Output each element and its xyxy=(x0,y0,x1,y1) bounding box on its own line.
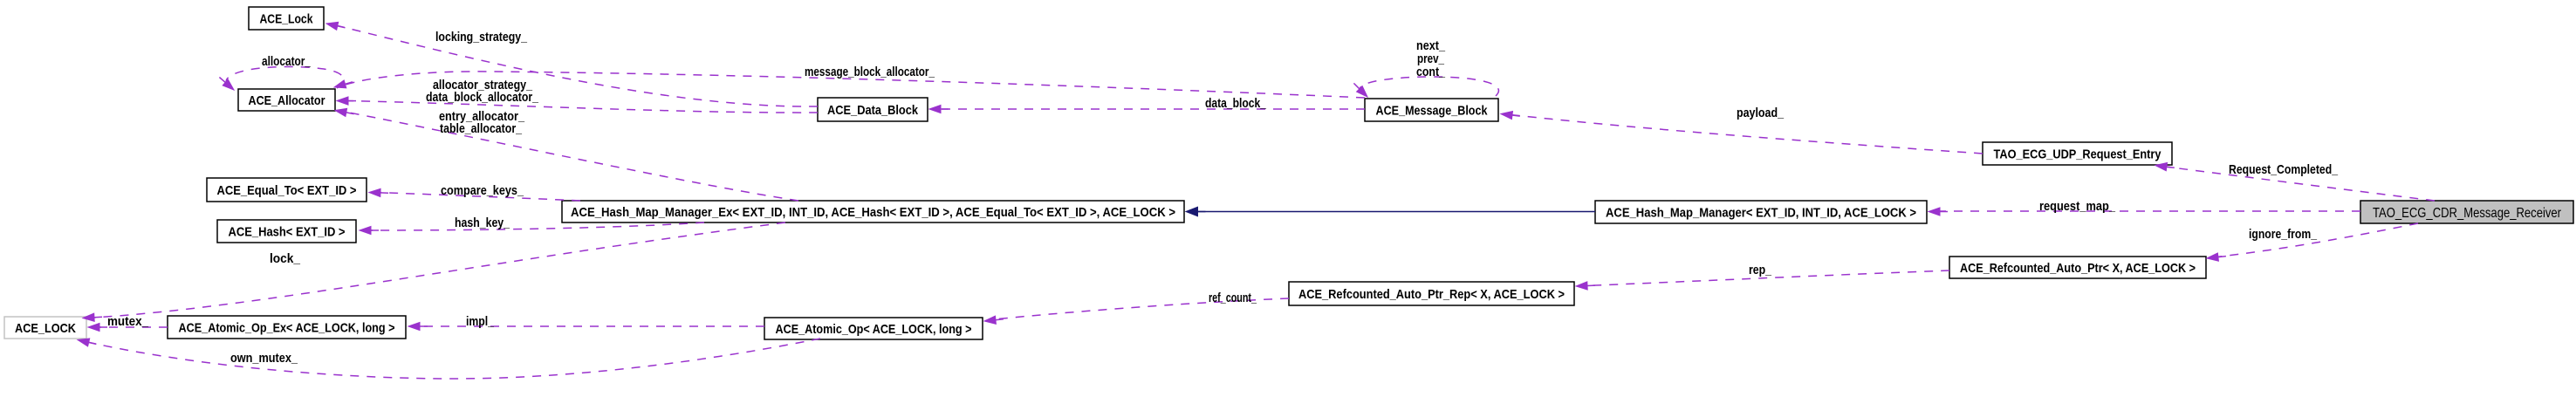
svg-text:impl_: impl_ xyxy=(466,314,495,329)
node ACE_LOCK xyxy=(4,317,86,339)
edge inheritance (ACE_Hash_Map_Manager derives from ACE_Hash_Map_Manager_Ex) xyxy=(1186,207,1595,216)
svg-text:Request_Completed_: Request_Completed_ xyxy=(2229,162,2339,177)
svg-text:compare_keys_: compare_keys_ xyxy=(441,183,524,198)
svg-text:locking_strategy_: locking_strategy_ xyxy=(435,30,528,44)
edge ignore_from_ (TAO_ECG_CDR_Message_Receiver to ACE_Refcounted_Auto_Ptr) xyxy=(2207,223,2418,261)
edge allocator_ (ACE_Allocator self loop) xyxy=(219,54,343,90)
edge mutex_ (ACE_Atomic_Op_Ex to ACE_LOCK) xyxy=(88,314,168,332)
edge lock_ (ACE_Hash_Map_Manager_Ex to ACE_LOCK) xyxy=(83,222,785,321)
node ACE_Hash_Map_Manager_Ex xyxy=(562,201,1184,222)
svg-text:ACE_LOCK: ACE_LOCK xyxy=(15,321,76,336)
svg-text:ACE_Refcounted_Auto_Ptr< X, AC: ACE_Refcounted_Auto_Ptr< X, ACE_LOCK > xyxy=(1960,261,2196,276)
svg-text:ACE_Hash< EXT_ID >: ACE_Hash< EXT_ID > xyxy=(229,224,346,239)
edge Request_Completed_ (TAO_ECG_CDR_Message_Receiver to TAO_ECG_UDP_Request_Entry) xyxy=(2155,162,2435,201)
edge next_ prev_ cont_ (ACE_Message_Block self loop) xyxy=(1353,38,1498,97)
svg-text:own_mutex_: own_mutex_ xyxy=(230,351,298,366)
edge data_block_ (ACE_Message_Block to ACE_Data_Block) xyxy=(929,96,1365,113)
edge entry_allocator_ table_allocator_ (ACE_Hash_Map_Manager_Ex to ACE_Allocator) xyxy=(335,108,798,201)
edge request_map_ (TAO_ECG_CDR_Message_Receiver to ACE_Hash_Map_Manager) xyxy=(1929,199,2360,216)
svg-text:TAO_ECG_UDP_Request_Entry: TAO_ECG_UDP_Request_Entry xyxy=(1994,147,2162,161)
edge rep_ (ACE_Refcounted_Auto_Ptr to ACE_Refcounted_Auto_Ptr_Rep) xyxy=(1576,263,1949,290)
edge allocator_strategy_ data_block_allocator_ (ACE_Data_Block to ACE_Allocator) xyxy=(337,78,818,113)
svg-text:ref_count_: ref_count_ xyxy=(1209,291,1257,305)
svg-text:rep_: rep_ xyxy=(1749,263,1772,277)
svg-text:payload_: payload_ xyxy=(1737,106,1785,120)
svg-text:ACE_Refcounted_Auto_Ptr_Rep< X: ACE_Refcounted_Auto_Ptr_Rep< X, ACE_LOCK… xyxy=(1298,287,1565,302)
svg-text:ACE_Lock: ACE_Lock xyxy=(260,11,314,26)
edge message_block_allocator_ (ACE_Message_Block to ACE_Allocator) xyxy=(334,65,1365,98)
node ACE_Message_Block xyxy=(1365,99,1498,121)
svg-text:table_allocator_: table_allocator_ xyxy=(440,121,523,136)
svg-text:ACE_Hash_Map_Manager_Ex< EXT_I: ACE_Hash_Map_Manager_Ex< EXT_ID, INT_ID,… xyxy=(571,205,1175,220)
svg-text:ACE_Atomic_Op< ACE_LOCK, long: ACE_Atomic_Op< ACE_LOCK, long > xyxy=(776,322,972,337)
svg-text:ACE_Equal_To< EXT_ID >: ACE_Equal_To< EXT_ID > xyxy=(217,183,357,198)
node ACE_Equal_To xyxy=(207,178,367,202)
svg-text:message_block_allocator_: message_block_allocator_ xyxy=(805,65,935,79)
edge compare_keys_ (ACE_Hash_Map_Manager_Ex to ACE_Equal_To) xyxy=(369,183,580,201)
edge payload_ (TAO_ECG_UDP_Request_Entry to ACE_Message_Block) xyxy=(1501,106,1983,154)
svg-text:allocator_: allocator_ xyxy=(262,54,312,69)
svg-text:ACE_Atomic_Op_Ex< ACE_LOCK, lo: ACE_Atomic_Op_Ex< ACE_LOCK, long > xyxy=(179,320,395,335)
svg-text:cont_: cont_ xyxy=(1416,65,1446,79)
svg-text:data_block_: data_block_ xyxy=(1205,96,1267,111)
node TAO_ECG_UDP_Request_Entry xyxy=(1983,142,2172,165)
svg-text:ACE_Hash_Map_Manager< EXT_ID,: ACE_Hash_Map_Manager< EXT_ID, INT_ID, AC… xyxy=(1606,205,1916,220)
node ACE_Hash_Map_Manager xyxy=(1595,201,1927,223)
node TAO_ECG_CDR_Message_Receiver xyxy=(2360,201,2573,223)
edge locking_strategy_ (ACE_Data_Block to ACE_Lock) xyxy=(326,22,818,106)
svg-text:ACE_Data_Block: ACE_Data_Block xyxy=(827,103,919,118)
node ACE_Refcounted_Auto_Ptr_Rep xyxy=(1289,282,1574,305)
edge ref_count_ (ACE_Refcounted_Auto_Ptr_Rep to ACE_Atomic_Op) xyxy=(984,291,1289,324)
node ACE_Allocator xyxy=(238,89,335,111)
svg-text:data_block_allocator_: data_block_allocator_ xyxy=(426,90,539,105)
node ACE_Refcounted_Auto_Ptr xyxy=(1949,257,2206,278)
node ACE_Lock xyxy=(249,7,324,30)
svg-text:ACE_Allocator: ACE_Allocator xyxy=(249,93,325,108)
svg-text:mutex_: mutex_ xyxy=(107,314,149,329)
svg-text:ACE_Message_Block: ACE_Message_Block xyxy=(1376,103,1489,118)
node ACE_Atomic_Op_Ex xyxy=(168,316,406,339)
edge hash_key_ (ACE_Hash_Map_Manager_Ex to ACE_Hash) xyxy=(360,216,704,235)
svg-text:hash_key_: hash_key_ xyxy=(455,216,510,230)
svg-text:TAO_ECG_CDR_Message_Receiver: TAO_ECG_CDR_Message_Receiver xyxy=(2373,206,2562,221)
edge impl_ (ACE_Atomic_Op to ACE_Atomic_Op_Ex) xyxy=(408,314,764,331)
node ACE_Hash xyxy=(217,220,356,243)
svg-text:request_map_: request_map_ xyxy=(2039,199,2116,214)
node ACE_Atomic_Op xyxy=(764,318,983,339)
svg-text:lock_: lock_ xyxy=(270,251,301,266)
svg-text:ignore_from_: ignore_from_ xyxy=(2249,227,2318,242)
edge own_mutex_ (ACE_Atomic_Op to ACE_LOCK) xyxy=(78,339,820,379)
node ACE_Data_Block xyxy=(818,98,928,121)
